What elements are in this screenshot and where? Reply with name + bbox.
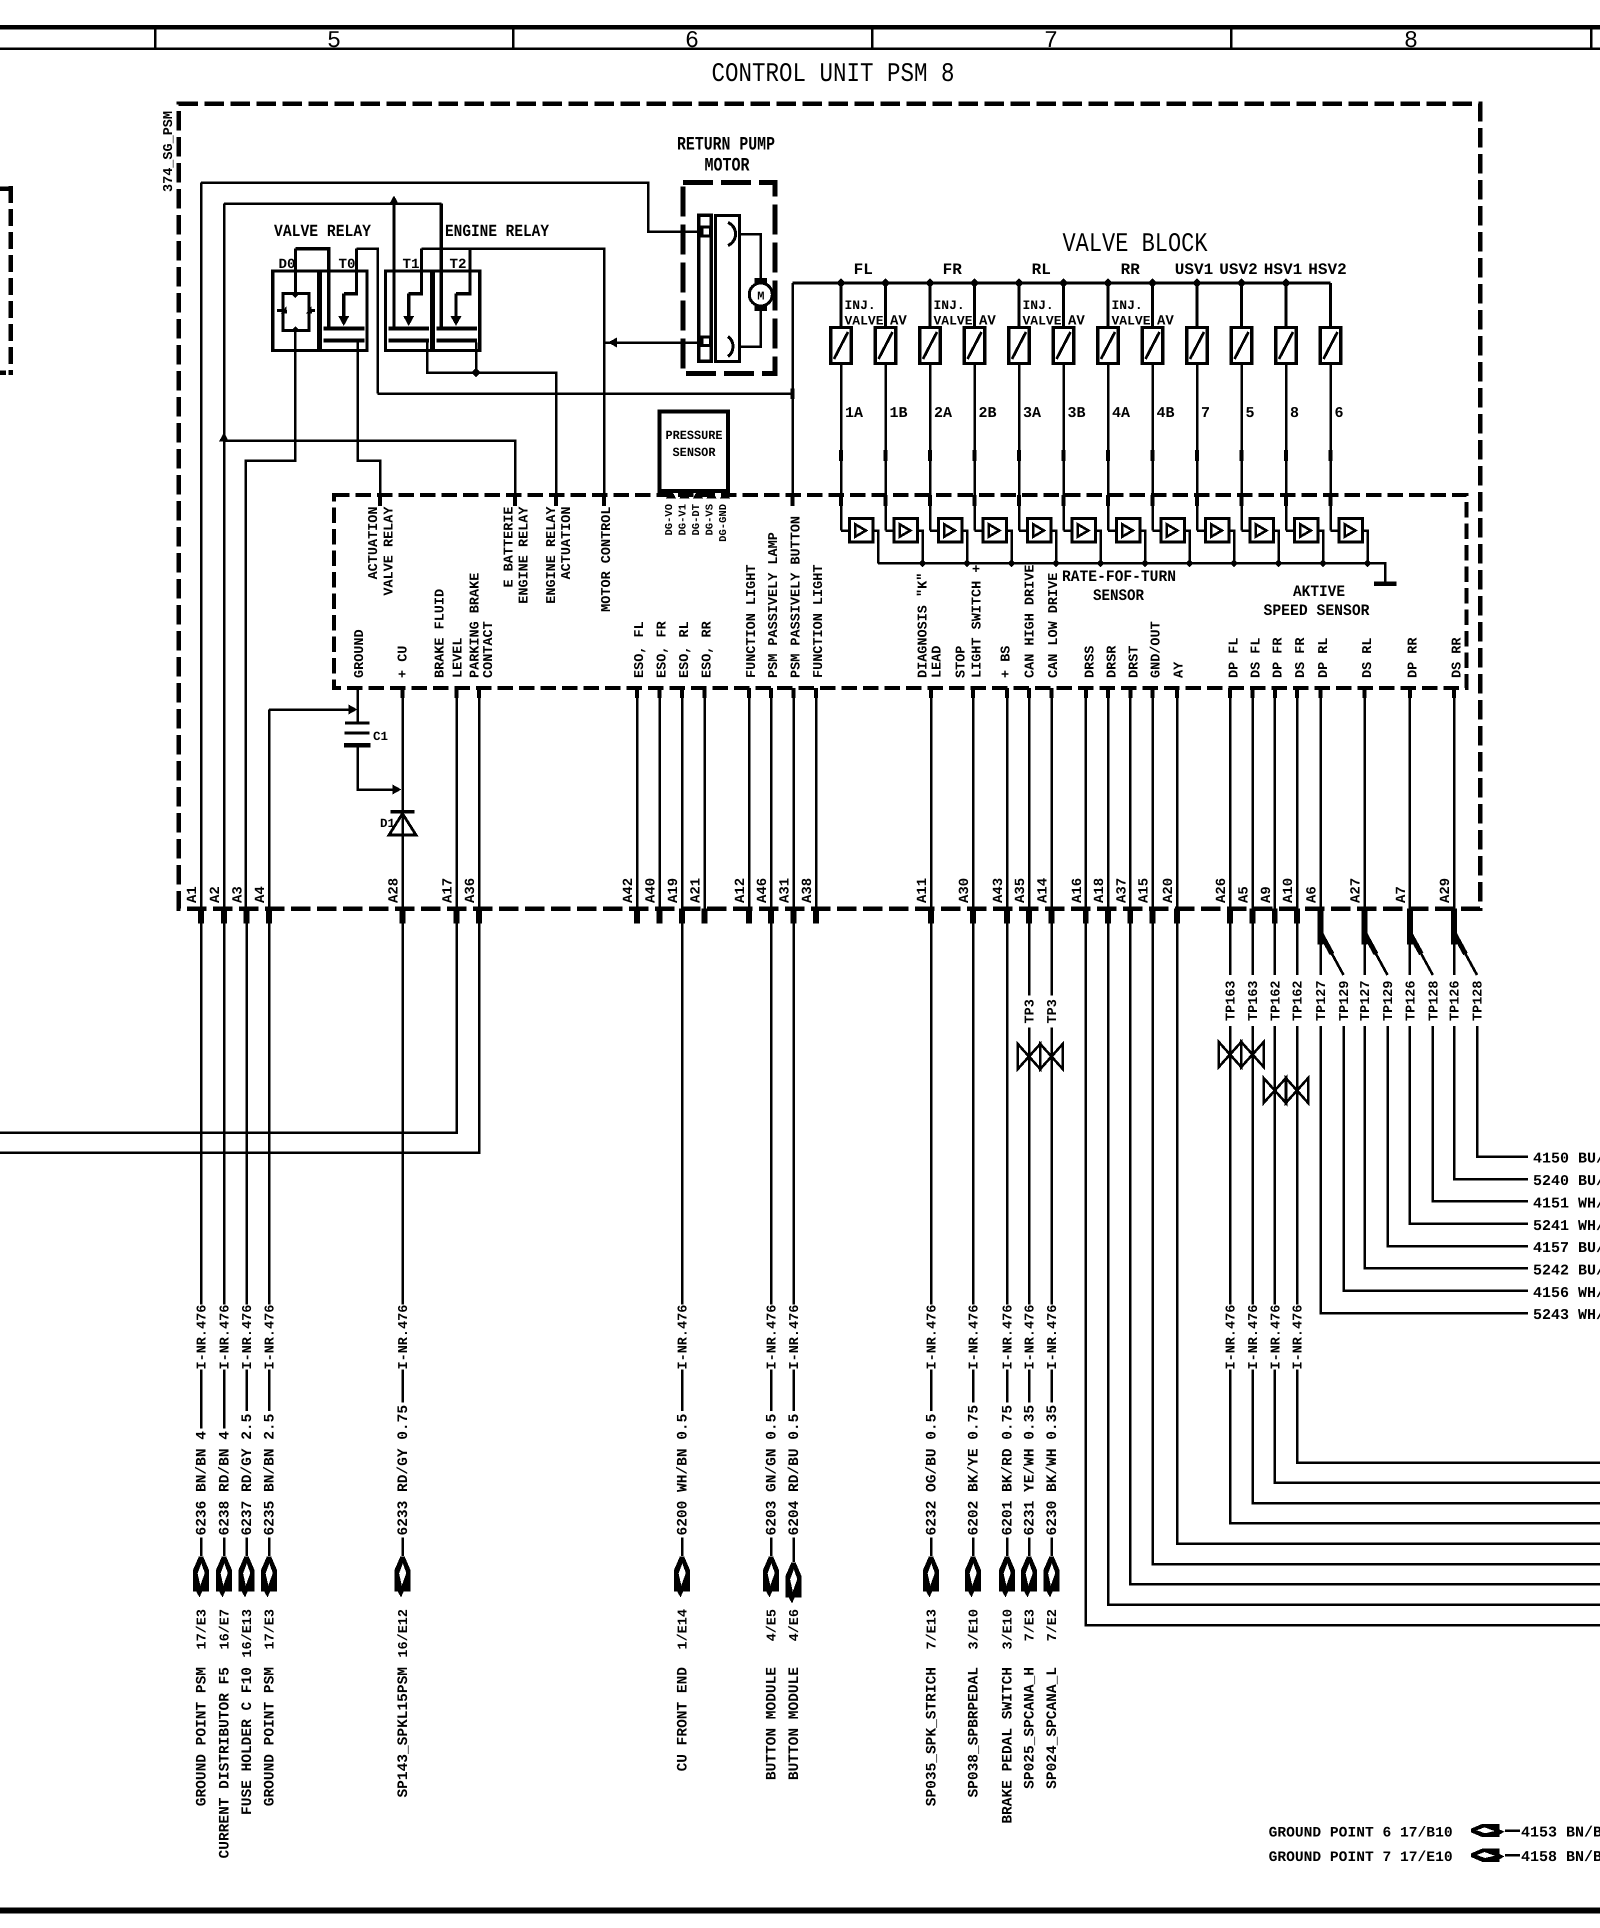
valve block supply bus xyxy=(793,281,1331,284)
svg-text:HSV2: HSV2 xyxy=(1308,261,1346,279)
svg-text:CONTACT: CONTACT xyxy=(482,621,497,678)
svg-text:DS FR: DS FR xyxy=(1294,637,1309,678)
arrow to SP035_SPK_STRICH xyxy=(930,1538,933,1557)
svg-text:6233 RD/GY 0.75: 6233 RD/GY 0.75 xyxy=(396,1405,412,1536)
twisted pair TP3 xyxy=(1018,1044,1029,1069)
svg-text:4151 WH/: 4151 WH/ xyxy=(1533,1196,1600,1213)
ruler tick 3 xyxy=(871,29,874,48)
wire junction at T1 feed xyxy=(389,196,399,205)
svg-text:DP RL: DP RL xyxy=(1317,637,1332,678)
svg-text:A5: A5 xyxy=(1237,886,1253,903)
svg-text:6235 BN/BN 2.5: 6235 BN/BN 2.5 xyxy=(263,1414,279,1536)
svg-text:SP038_SPBRPEDAL: SP038_SPBRPEDAL xyxy=(967,1667,983,1798)
wire T0 contact output to ACTUATION VALVE RELAY pin xyxy=(358,343,381,496)
svg-text:GROUND: GROUND xyxy=(353,629,368,678)
relay T0 box xyxy=(321,271,367,351)
diagonal branch A27 xyxy=(1365,933,1377,954)
wire from A7 straight xyxy=(1409,945,1412,976)
wire A17 exit left xyxy=(0,924,457,1133)
svg-text:CAN HIGH DRIVE: CAN HIGH DRIVE xyxy=(1024,565,1039,678)
svg-text:A40: A40 xyxy=(644,878,660,903)
buffer 9 xyxy=(1197,529,1205,532)
wire TP127 to right label xyxy=(1321,1026,1529,1313)
buffer 11 xyxy=(1286,529,1294,532)
svg-text:I-NR.476: I-NR.476 xyxy=(241,1305,256,1370)
wire T0 coil bracket xyxy=(344,249,357,294)
arrow to BUTTON MODULE xyxy=(770,1538,773,1557)
svg-text:TP129: TP129 xyxy=(1382,980,1397,1021)
pin wire xyxy=(1363,688,1366,909)
svg-text:7/E2: 7/E2 xyxy=(1046,1609,1061,1641)
svg-text:7/E3: 7/E3 xyxy=(1024,1609,1039,1641)
pin wire xyxy=(1151,688,1154,909)
svg-text:I-NR.476: I-NR.476 xyxy=(926,1305,941,1370)
wire from A27 straight xyxy=(1363,945,1366,976)
svg-text:I-NR.476: I-NR.476 xyxy=(1002,1305,1017,1370)
wire TP128 to right label xyxy=(1433,1026,1528,1202)
wire from A30 xyxy=(972,924,975,1305)
pin wire xyxy=(1319,688,1322,909)
svg-text:FUNCTION LIGHT: FUNCTION LIGHT xyxy=(745,565,760,678)
svg-text:2B: 2B xyxy=(979,405,997,422)
wire from A5 xyxy=(1251,924,1254,976)
buffer 3 xyxy=(930,529,938,532)
svg-text:DRSR: DRSR xyxy=(1106,645,1121,678)
svg-text:6236 BN/BN 4: 6236 BN/BN 4 xyxy=(195,1431,211,1536)
svg-text:ESO, RR: ESO, RR xyxy=(701,620,716,678)
svg-text:DP FL: DP FL xyxy=(1228,637,1243,678)
pin wire xyxy=(401,688,404,909)
wire from A4 xyxy=(268,924,271,1305)
svg-text:DRST: DRST xyxy=(1128,646,1143,678)
arrow to GROUND POINT PSM xyxy=(200,1538,203,1557)
wire from A37 exit right xyxy=(1130,924,1600,1585)
wire continues xyxy=(1229,1026,1232,1305)
svg-text:A15: A15 xyxy=(1137,878,1153,903)
wire A1 vertical xyxy=(200,183,203,909)
buffer output bus xyxy=(878,563,1385,581)
motor M circle xyxy=(749,283,772,306)
buffer 4 xyxy=(975,529,983,532)
svg-text:LIGHT SWITCH +: LIGHT SWITCH + xyxy=(971,565,986,678)
pin wire xyxy=(478,688,481,909)
wire T1 contact feed xyxy=(392,204,395,328)
pin wire xyxy=(1006,688,1009,909)
svg-text:DS RR: DS RR xyxy=(1451,637,1466,678)
svg-text:6: 6 xyxy=(685,28,699,55)
svg-text:A10: A10 xyxy=(1281,878,1297,903)
arrow to FUSE HOLDER C F10 xyxy=(245,1538,248,1557)
svg-text:A18: A18 xyxy=(1092,878,1108,903)
relay D0 suppressor xyxy=(283,294,309,331)
svg-text:SP025_SPCANA_H: SP025_SPCANA_H xyxy=(1023,1667,1039,1789)
svg-text:A11: A11 xyxy=(915,878,931,903)
svg-text:PSM PASSIVELY BUTTON: PSM PASSIVELY BUTTON xyxy=(790,516,805,678)
svg-text:VALVE BLOCK: VALVE BLOCK xyxy=(1063,230,1209,260)
buffer 7 xyxy=(1108,529,1116,532)
wire D0 coil bottom to A3 xyxy=(246,330,296,909)
wire from A28 xyxy=(401,924,404,1305)
svg-text:T1: T1 xyxy=(403,257,420,273)
svg-text:I-NR.476: I-NR.476 xyxy=(1270,1305,1285,1370)
wire motor lower pin link xyxy=(697,341,702,344)
svg-text:1B: 1B xyxy=(890,405,908,422)
page bottom border line xyxy=(0,1908,1600,1914)
junction arrow C1/+CU xyxy=(393,785,402,795)
svg-text:TP3: TP3 xyxy=(1024,999,1039,1023)
buffer 10 xyxy=(1242,529,1250,532)
motor brush arc lower xyxy=(728,337,733,357)
svg-text:INJ.: INJ. xyxy=(1112,298,1143,313)
pin wire xyxy=(1409,688,1412,909)
svg-text:16/E12: 16/E12 xyxy=(397,1609,412,1658)
svg-text:4B: 4B xyxy=(1157,405,1175,422)
svg-text:ENGINE RELAY: ENGINE RELAY xyxy=(518,506,533,604)
svg-text:SP024_SPCANA_L: SP024_SPCANA_L xyxy=(1045,1667,1061,1789)
svg-text:7/E13: 7/E13 xyxy=(926,1609,941,1650)
svg-text:4/E6: 4/E6 xyxy=(788,1609,803,1641)
svg-text:M: M xyxy=(757,290,764,304)
svg-text:TP128: TP128 xyxy=(1428,980,1443,1021)
ground xyxy=(1374,582,1397,587)
ruler tick 4 xyxy=(1230,29,1233,48)
svg-text:RATE-FOF-TURN: RATE-FOF-TURN xyxy=(1062,568,1176,586)
svg-text:1/E14: 1/E14 xyxy=(677,1609,692,1650)
svg-text:TP163: TP163 xyxy=(1225,980,1240,1021)
svg-text:A36: A36 xyxy=(463,878,479,903)
relay T2 box xyxy=(433,271,479,351)
svg-text:CU FRONT END: CU FRONT END xyxy=(676,1667,692,1772)
svg-text:VALVE: VALVE xyxy=(1112,314,1151,329)
svg-text:AV: AV xyxy=(979,314,996,330)
svg-text:A35: A35 xyxy=(1013,878,1029,903)
valve 4A wire and coil xyxy=(1103,278,1113,288)
valve 1B wire and coil xyxy=(881,278,891,288)
wire from A19 xyxy=(681,924,684,1305)
svg-text:5: 5 xyxy=(327,28,341,55)
wire from A20 exit right xyxy=(1177,924,1600,1544)
motor brush holder bar xyxy=(699,215,712,361)
relay T2 contact bars xyxy=(436,327,477,331)
svg-text:6232 OG/BU 0.5: 6232 OG/BU 0.5 xyxy=(925,1414,941,1536)
pin wire xyxy=(1274,688,1277,909)
svg-text:T0: T0 xyxy=(339,257,356,273)
motor terminal upper xyxy=(754,278,767,283)
svg-text:A38: A38 xyxy=(800,878,816,903)
svg-text:5242 BU/: 5242 BU/ xyxy=(1533,1263,1600,1280)
svg-text:I-NR.476: I-NR.476 xyxy=(1024,1305,1039,1370)
svg-text:INJ.: INJ. xyxy=(845,298,876,313)
svg-text:DG-GND: DG-GND xyxy=(718,504,730,542)
svg-text:DG-VS: DG-VS xyxy=(705,504,717,536)
pin wire xyxy=(972,688,975,909)
relay T0 contact bars xyxy=(324,327,365,331)
svg-text:I-NR.476: I-NR.476 xyxy=(1247,1305,1262,1370)
motor pin lower xyxy=(702,337,711,346)
svg-text:4156 WH/: 4156 WH/ xyxy=(1533,1285,1600,1302)
svg-text:TP126: TP126 xyxy=(1449,980,1464,1021)
pressure sensor box xyxy=(660,412,729,492)
svg-text:I-NR.476: I-NR.476 xyxy=(264,1305,279,1370)
pin wire xyxy=(930,688,933,909)
svg-text:6231 YE/WH 0.35: 6231 YE/WH 0.35 xyxy=(1023,1405,1039,1536)
svg-text:RR: RR xyxy=(1121,261,1141,279)
ticks for top-entry pins xyxy=(378,495,382,506)
diode D1 xyxy=(390,810,414,813)
wire from A26 xyxy=(1229,924,1232,976)
wire from A1 xyxy=(200,924,203,1305)
valve 3B wire and coil xyxy=(1059,278,1069,288)
svg-text:16/E7: 16/E7 xyxy=(219,1609,234,1650)
svg-text:16/E13: 16/E13 xyxy=(241,1609,256,1658)
arrow to SP024_SPCANA_L xyxy=(1050,1538,1053,1557)
svg-text:GND/OUT: GND/OUT xyxy=(1150,621,1165,678)
svg-text:FR: FR xyxy=(943,261,963,279)
motor pin upper xyxy=(702,227,711,236)
svg-text:I-NR.476: I-NR.476 xyxy=(788,1305,803,1370)
svg-text:I-NR.476: I-NR.476 xyxy=(219,1305,234,1370)
svg-text:4150 BU/: 4150 BU/ xyxy=(1533,1151,1600,1168)
svg-text:VALVE: VALVE xyxy=(845,314,884,329)
arrow to BRAKE PEDAL SWITCH xyxy=(1006,1538,1009,1557)
svg-text:FUSE HOLDER C F10: FUSE HOLDER C F10 xyxy=(240,1667,256,1815)
svg-text:INJ.: INJ. xyxy=(934,298,965,313)
svg-text:A12: A12 xyxy=(733,878,749,903)
svg-text:374_SG_PSM: 374_SG_PSM xyxy=(162,111,177,192)
svg-text:USV2: USV2 xyxy=(1219,261,1257,279)
pin wire xyxy=(1251,688,1254,909)
svg-text:LEAD: LEAD xyxy=(931,646,946,678)
wire continues xyxy=(1251,1026,1254,1305)
diagonal branch A29 xyxy=(1454,933,1466,954)
svg-text:ACTUATION: ACTUATION xyxy=(560,507,575,580)
svg-text:DG-DT: DG-DT xyxy=(691,504,703,536)
motor commutator frame xyxy=(715,215,739,361)
svg-text:GROUND POINT 6 17/B10: GROUND POINT 6 17/B10 xyxy=(1269,1826,1453,1842)
pin wire xyxy=(1296,688,1299,909)
svg-text:A21: A21 xyxy=(689,878,705,903)
wire A4 horizontal xyxy=(269,708,352,711)
svg-text:ESO, RL: ESO, RL xyxy=(678,621,693,678)
svg-text:1A: 1A xyxy=(845,405,863,422)
diagonal branch A6 xyxy=(1321,933,1333,954)
svg-text:ACTUATION: ACTUATION xyxy=(367,507,382,580)
valve 4B wire and coil xyxy=(1148,278,1158,288)
svg-text:DP RR: DP RR xyxy=(1407,637,1422,678)
svg-text:A2: A2 xyxy=(208,886,224,903)
wire continues xyxy=(1274,1026,1277,1305)
wire from A16 exit right xyxy=(1086,924,1600,1626)
svg-text:+ CU: + CU xyxy=(397,646,412,678)
svg-text:5: 5 xyxy=(1246,405,1255,422)
svg-text:I-NR.476: I-NR.476 xyxy=(766,1305,781,1370)
motor terminal lower xyxy=(754,306,767,311)
svg-text:D1: D1 xyxy=(380,817,395,831)
svg-text:6: 6 xyxy=(1335,405,1344,422)
svg-text:I-NR.476: I-NR.476 xyxy=(968,1305,983,1370)
svg-text:ENGINE RELAY: ENGINE RELAY xyxy=(545,506,560,604)
svg-text:TP162: TP162 xyxy=(1270,980,1285,1021)
wire TP126 to right label xyxy=(1454,1026,1528,1179)
svg-text:DRSS: DRSS xyxy=(1084,646,1099,678)
valve 6 wire and coil xyxy=(1329,283,1332,328)
wire from A10 xyxy=(1296,924,1299,976)
arrow to CU FRONT END xyxy=(681,1538,684,1557)
svg-text:FUNCTION LIGHT: FUNCTION LIGHT xyxy=(812,565,827,678)
wire brush to motor - xyxy=(738,311,761,347)
svg-text:C1: C1 xyxy=(373,730,388,744)
junction on A2 wire xyxy=(219,433,229,442)
buffer 6 xyxy=(1064,529,1072,532)
pin wire xyxy=(1176,688,1179,909)
valve 3A wire and coil xyxy=(1014,278,1024,288)
arrow to SP143_SPKL15PSM xyxy=(401,1538,404,1557)
svg-text:A9: A9 xyxy=(1259,886,1275,903)
pin wire xyxy=(455,688,458,909)
wire TP126 to right label xyxy=(1410,1026,1528,1224)
svg-text:A7: A7 xyxy=(1394,886,1410,903)
svg-text:D0: D0 xyxy=(279,257,296,273)
svg-text:CURRENT DISTRIBUTOR F5: CURRENT DISTRIBUTOR F5 xyxy=(218,1667,234,1858)
pin wire xyxy=(658,688,661,909)
junction arrow ground xyxy=(349,705,358,715)
svg-text:FL: FL xyxy=(854,261,873,279)
svg-text:A31: A31 xyxy=(778,878,794,903)
svg-text:VALVE RELAY: VALVE RELAY xyxy=(382,506,397,596)
svg-text:6201 BK/RD 0.75: 6201 BK/RD 0.75 xyxy=(1001,1405,1017,1536)
svg-text:6203 GN/GN 0.5: 6203 GN/GN 0.5 xyxy=(765,1414,781,1536)
svg-text:DS FL: DS FL xyxy=(1250,637,1265,678)
relay T1 contact bars xyxy=(388,327,429,331)
pin wire xyxy=(1085,688,1088,909)
svg-text:E BATTERIE: E BATTERIE xyxy=(503,507,518,588)
svg-text:AV: AV xyxy=(890,314,907,330)
page top border line xyxy=(0,25,1600,29)
wire D0 coil top xyxy=(294,249,297,294)
diagonal branch A7 xyxy=(1410,933,1422,954)
wire from A29 straight xyxy=(1453,945,1456,976)
outer dashed box CONTROL UNIT PSM xyxy=(179,104,1481,909)
svg-text:VALVE RELAY: VALVE RELAY xyxy=(274,223,372,242)
svg-text:4158 BN/B: 4158 BN/B xyxy=(1521,1849,1600,1866)
svg-text:DIAGNOSIS "K": DIAGNOSIS "K" xyxy=(917,573,932,678)
svg-text:VALVE: VALVE xyxy=(934,314,973,329)
svg-text:CONTROL UNIT PSM 8: CONTROL UNIT PSM 8 xyxy=(712,60,955,90)
svg-text:PSM PASSIVELY LAMP: PSM PASSIVELY LAMP xyxy=(767,532,782,678)
svg-text:5241 WH/: 5241 WH/ xyxy=(1533,1218,1600,1235)
ruler tick 1 xyxy=(154,29,157,48)
svg-text:ESO, FR: ESO, FR xyxy=(656,620,671,678)
svg-text:SPEED SENSOR: SPEED SENSOR xyxy=(1264,602,1370,620)
wire GROUND to A4 junction xyxy=(356,688,359,723)
wire from A18 exit right xyxy=(1108,924,1600,1605)
svg-text:DP FR: DP FR xyxy=(1272,637,1287,678)
buffer 12 xyxy=(1331,529,1339,532)
wire continues xyxy=(1296,1026,1299,1305)
ruler bottom line xyxy=(0,48,1600,50)
svg-text:4A: 4A xyxy=(1112,405,1130,422)
wire motor control to motor lower brush xyxy=(604,341,697,344)
svg-text:A16: A16 xyxy=(1070,878,1086,903)
svg-text:A17: A17 xyxy=(441,878,457,903)
svg-text:DS RL: DS RL xyxy=(1361,637,1376,678)
svg-text:A6: A6 xyxy=(1305,886,1321,903)
svg-text:TP126: TP126 xyxy=(1405,980,1420,1021)
svg-text:I-NR.476: I-NR.476 xyxy=(196,1305,211,1370)
svg-text:8: 8 xyxy=(1404,28,1418,55)
svg-text:5240 BU/: 5240 BU/ xyxy=(1533,1173,1600,1190)
svg-text:SP143_SPKL15PSM: SP143_SPKL15PSM xyxy=(396,1667,412,1798)
svg-text:I-NR.476: I-NR.476 xyxy=(677,1305,692,1370)
svg-text:6237 RD/GY 2.5: 6237 RD/GY 2.5 xyxy=(240,1414,256,1536)
svg-text:TP127: TP127 xyxy=(1359,980,1374,1021)
svg-text:BRAKE PEDAL SWITCH: BRAKE PEDAL SWITCH xyxy=(1001,1667,1017,1824)
wire T1 coil bracket xyxy=(409,249,422,294)
wire from A35 xyxy=(1028,924,1031,996)
svg-text:SP035_SPK_STRICH: SP035_SPK_STRICH xyxy=(925,1667,941,1806)
wire from A14 xyxy=(1050,924,1053,996)
buffer 8 xyxy=(1153,529,1161,532)
svg-text:USV1: USV1 xyxy=(1175,261,1213,279)
svg-text:SENSOR: SENSOR xyxy=(1093,587,1144,605)
svg-text:CAN LOW DRIVE: CAN LOW DRIVE xyxy=(1047,573,1062,678)
svg-text:INJ.: INJ. xyxy=(1023,298,1054,313)
arrow to SP038_SPBRPEDAL xyxy=(972,1538,975,1557)
return pump motor box xyxy=(683,183,775,374)
wire from A15 exit right xyxy=(1153,924,1600,1565)
svg-text:4153 BN/B: 4153 BN/B xyxy=(1521,1825,1600,1842)
svg-text:TP128: TP128 xyxy=(1472,980,1487,1021)
arrow ground point 7 xyxy=(1471,1849,1505,1862)
ruler tick 5 xyxy=(1590,29,1593,48)
pin wire xyxy=(1453,688,1456,909)
wire T2 coil bracket xyxy=(456,249,470,294)
wire TP128 to right label xyxy=(1477,1026,1528,1157)
svg-text:MOTOR: MOTOR xyxy=(705,155,750,177)
valve 1A wire and coil xyxy=(836,278,846,288)
arrow to BUTTON MODULE xyxy=(792,1538,795,1563)
buffer 5 xyxy=(1019,529,1027,532)
svg-text:BUTTON MODULE: BUTTON MODULE xyxy=(765,1667,781,1780)
pin wire xyxy=(703,688,706,909)
svg-text:T2: T2 xyxy=(450,257,467,273)
svg-text:TP129: TP129 xyxy=(1338,980,1353,1021)
svg-text:PRESSURE: PRESSURE xyxy=(666,429,723,443)
svg-text:GROUND POINT 7 17/E10: GROUND POINT 7 17/E10 xyxy=(1269,1850,1453,1866)
pin wire xyxy=(636,688,639,909)
svg-text:I-NR.476: I-NR.476 xyxy=(1292,1305,1307,1370)
pin wire xyxy=(1107,688,1110,909)
junction motor control xyxy=(608,338,617,348)
pin wire xyxy=(792,688,795,909)
svg-text:ENGINE RELAY: ENGINE RELAY xyxy=(445,223,550,242)
svg-text:A27: A27 xyxy=(1349,878,1365,903)
svg-text:HSV1: HSV1 xyxy=(1264,261,1302,279)
wire T2 contact feed xyxy=(440,204,443,328)
svg-text:TP127: TP127 xyxy=(1315,980,1330,1021)
motor brush arc upper xyxy=(728,223,736,246)
wire C1 to +CU xyxy=(358,748,398,790)
svg-text:ESO, FL: ESO, FL xyxy=(633,621,648,678)
relay T1 coil arrow xyxy=(407,294,410,319)
pin wire xyxy=(1129,688,1132,909)
wire from A11 xyxy=(930,924,933,1305)
svg-text:VALVE: VALVE xyxy=(1023,314,1062,329)
wire brush to motor + xyxy=(738,234,761,278)
wire TP129 to right label xyxy=(1388,1026,1529,1246)
svg-text:A37: A37 xyxy=(1114,878,1130,903)
wire A36 exit left xyxy=(0,924,479,1153)
